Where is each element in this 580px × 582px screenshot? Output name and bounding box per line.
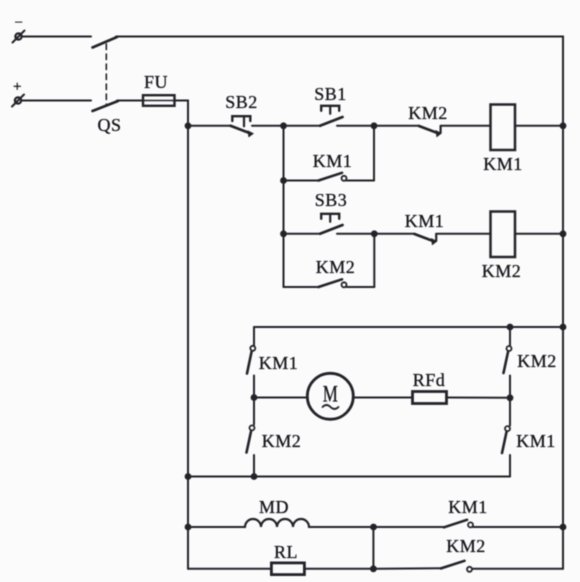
motor M	[307, 373, 353, 419]
switch QS linkage dashed	[105, 44, 107, 106]
switch QS pole 2 blade	[93, 101, 119, 111]
svg-text:M: M	[323, 382, 339, 407]
contact KM2 bridge upper-right	[504, 327, 512, 398]
svg-text:KM1: KM1	[516, 431, 556, 451]
wire top rail	[116, 37, 563, 126]
wire coil KM2 to bus	[515, 233, 563, 235]
wire RL row left	[188, 568, 271, 570]
wire to MD	[188, 526, 245, 528]
svg-text:KM1: KM1	[313, 151, 353, 171]
wire top rail left	[22, 36, 91, 38]
pushbutton SB2 (NC)	[231, 116, 255, 137]
terminal plus	[12, 95, 24, 107]
wire motor to RFd	[353, 397, 412, 399]
svg-text:KM2: KM2	[262, 431, 302, 451]
terminal minus	[13, 31, 25, 43]
coil KM2	[491, 212, 516, 258]
wire bottom feed left	[21, 100, 91, 102]
node KM1 branch left	[280, 177, 287, 184]
node MD row left	[185, 524, 192, 531]
wire to SB3	[284, 233, 319, 235]
wire RL to node	[304, 568, 373, 570]
node bus bridge top	[560, 324, 567, 331]
pushbutton SB1 (NO)	[320, 106, 343, 126]
svg-text:RFd: RFd	[413, 370, 446, 390]
coil KM1	[491, 105, 516, 151]
svg-text:KM2: KM2	[517, 351, 557, 371]
wire row1 to KM2 contact	[374, 125, 419, 127]
wire SB2 to node	[252, 125, 284, 127]
wire FU to left bus	[175, 101, 189, 126]
svg-text:KM1: KM1	[448, 497, 488, 517]
contact KM1 bridge lower-right	[502, 398, 510, 477]
node row2 right	[371, 230, 378, 237]
svg-text:−: −	[15, 15, 24, 31]
node MD-RL link bottom	[370, 565, 377, 572]
node motor left	[251, 394, 258, 401]
pushbutton SB3 (NO)	[320, 214, 343, 234]
wire SB1 to node	[337, 125, 374, 127]
wire row2 to KM1 contact	[374, 233, 414, 235]
wire MD to node	[309, 526, 374, 528]
resistor RFd	[413, 392, 447, 404]
svg-text:FU: FU	[144, 72, 168, 92]
svg-text:KM2: KM2	[408, 103, 448, 123]
svg-text:KM1: KM1	[259, 353, 299, 373]
wire row1 to SB2	[188, 125, 231, 127]
node bridge top right branch	[507, 324, 514, 331]
svg-text:KM2: KM2	[316, 257, 356, 277]
wire SB3 to node	[337, 233, 374, 235]
svg-text:SB2: SB2	[225, 92, 258, 112]
wire coil KM1 to bus	[515, 125, 563, 127]
node bus row1	[560, 122, 567, 129]
svg-text:KM2: KM2	[482, 261, 522, 281]
wire RFd to node	[447, 397, 511, 399]
node bridge bottom left branch	[251, 473, 258, 480]
node bus bridge bottom	[185, 473, 192, 480]
node MD-RL link top	[370, 524, 377, 531]
svg-text:+: +	[13, 79, 22, 95]
svg-text:MD: MD	[259, 497, 289, 517]
node row1 right	[371, 122, 378, 129]
wire to coil KM2	[437, 233, 491, 235]
svg-text:KM1: KM1	[483, 154, 523, 174]
node bus row2	[560, 230, 567, 237]
motor tilde	[323, 405, 339, 409]
contact KM2 (NO self-hold row2)	[284, 234, 375, 287]
node row2 left	[280, 230, 287, 237]
fuse FU	[143, 95, 175, 106]
wire to SB1	[284, 125, 319, 127]
wire QS to FU	[117, 100, 143, 102]
wire node to motor	[254, 397, 307, 399]
wire left parallel vertical	[283, 126, 285, 287]
wire node to KM2 contact	[373, 567, 441, 570]
node motor right	[507, 394, 514, 401]
wire right bus	[562, 126, 564, 569]
node row1 left	[280, 122, 287, 129]
contact KM1 bridge upper-left	[247, 327, 255, 398]
wire bridge bottom rail	[188, 476, 510, 478]
wire to coil KM1	[441, 125, 491, 127]
contact KM2 bridge lower-left	[247, 398, 255, 477]
contact KM1 (NO self-hold)	[284, 126, 375, 181]
svg-text:KM2: KM2	[446, 536, 486, 556]
contact KM1 bottom (NO)	[444, 520, 563, 528]
svg-text:RL: RL	[274, 542, 298, 562]
svg-text:QS: QS	[97, 115, 121, 135]
wire left bus	[187, 126, 189, 569]
wire bridge top rail	[254, 326, 563, 328]
wire MD-RL link vertical	[372, 527, 374, 569]
svg-text:SB1: SB1	[314, 84, 347, 104]
node FU junction	[185, 122, 192, 129]
inductor MD	[245, 519, 309, 527]
node bus MD row	[560, 524, 567, 531]
contact KM1 (NC interlock)	[415, 234, 438, 246]
resistor RL	[271, 563, 304, 575]
contact KM2 bottom (NO)	[441, 561, 563, 572]
svg-text:SB3: SB3	[315, 190, 348, 210]
contact KM2 (NC interlock)	[419, 126, 442, 138]
switch QS pole 1 blade	[93, 37, 118, 48]
wire node to KM1 contact	[374, 526, 445, 528]
svg-text:KM1: KM1	[405, 211, 445, 231]
